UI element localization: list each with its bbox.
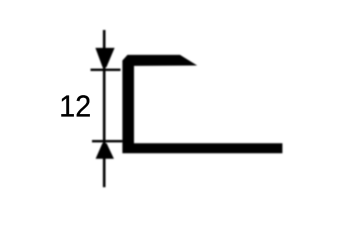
svg-text:12: 12 bbox=[59, 90, 91, 124]
